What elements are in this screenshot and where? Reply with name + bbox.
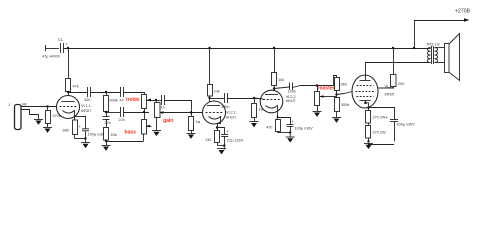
svg-text:6Ф3П: 6Ф3П — [385, 93, 395, 97]
capacitor 47 treble — [120, 87, 124, 103]
ground cathode VL2.1 — [217, 149, 226, 155]
svg-text:10k: 10k — [278, 78, 284, 82]
wire cathode bottom VL2.2 — [278, 132, 291, 134]
ground gain — [152, 131, 161, 137]
svg-text:J: J — [8, 103, 10, 107]
svg-text:680: 680 — [63, 129, 69, 133]
svg-text:270 2W: 270 2W — [373, 116, 387, 120]
ground 470k — [43, 128, 52, 133]
wire input to grid — [21, 106, 57, 108]
svg-text:VL2.1: VL2.1 — [226, 111, 236, 115]
tube VL2.2 6N1P — [260, 90, 295, 113]
svg-text:300k: 300k — [341, 103, 349, 107]
wire wiper to node B — [153, 100, 162, 102]
svg-text:C1: C1 — [58, 38, 63, 42]
svg-text:200: 200 — [398, 82, 404, 86]
svg-text:100n: 100n — [221, 105, 229, 109]
transformer TR3 1:8 — [426, 43, 440, 65]
svg-text:130: 130 — [205, 138, 211, 142]
resistor 470 cathode VL2.2 — [266, 120, 281, 133]
wire cathode VL2.1 — [218, 119, 221, 131]
input jack J — [8, 103, 21, 130]
node +270B riser — [414, 20, 416, 48]
wire anode to cap — [210, 98, 225, 100]
capacitor 22n mid — [119, 107, 125, 122]
svg-text:treble: treble — [126, 97, 140, 103]
wire — [45, 48, 59, 50]
node anode VL2.2 — [273, 87, 275, 89]
svg-text:47µ x400V: 47µ x400V — [42, 55, 61, 59]
svg-text:+270B: +270B — [455, 9, 471, 15]
svg-text:40k: 40k — [111, 133, 117, 137]
node anode VL1.1 — [67, 91, 69, 93]
svg-text:42n: 42n — [84, 98, 90, 102]
capacitor 22n bass — [103, 117, 111, 128]
resistor 500k slope — [104, 92, 118, 117]
ground 1M VL2.2 — [250, 122, 259, 128]
capacitor 100u cathode — [79, 116, 107, 139]
wire mid row — [106, 112, 121, 114]
wire anode VL2.2 to master — [274, 87, 289, 89]
wire treble cap to pot — [124, 93, 145, 95]
resistor 10k plate VL2.2 — [272, 47, 285, 94]
svg-text:VR: VR — [22, 103, 28, 107]
wire mid to pot leg — [124, 112, 150, 114]
svg-text:22n: 22n — [119, 118, 125, 122]
node NF — [105, 140, 107, 142]
wire grid VL2.2 — [254, 98, 263, 99]
wire cathode VL1.2 — [367, 106, 369, 108]
capacitor 42n — [84, 87, 91, 102]
svg-text:bass: bass — [125, 130, 137, 136]
ground 1M — [187, 134, 196, 139]
svg-text:470: 470 — [266, 126, 272, 130]
svg-text:22µ x16V: 22µ x16V — [227, 138, 244, 142]
svg-text:360: 360 — [341, 83, 347, 87]
node C mid — [105, 111, 107, 113]
svg-text:master: master — [318, 86, 334, 92]
svg-text:47k: 47k — [73, 85, 79, 89]
wire divider to grid VL1.2 — [337, 92, 353, 95]
svg-text:1м: 1м — [196, 120, 201, 124]
node grid VL2.2 — [253, 97, 255, 99]
svg-text:6Ф3П: 6Ф3П — [81, 109, 91, 113]
resistor 680 — [63, 116, 78, 139]
wire to node A — [91, 92, 121, 94]
svg-text:200µ x30V: 200µ x30V — [397, 123, 416, 127]
tube VL1.1 6F3P triode — [57, 96, 92, 119]
resistor 470k — [46, 107, 61, 128]
resistor 270 2W b — [366, 126, 387, 142]
resistor 1M grid VL2.2 — [252, 98, 264, 122]
svg-text:270 2W: 270 2W — [373, 131, 387, 135]
resistor 47k plate — [66, 48, 79, 102]
potentiometer bass — [142, 120, 152, 142]
svg-text:1n: 1n — [161, 106, 165, 110]
wire anode to coupling — [68, 92, 88, 94]
svg-text:500k: 500k — [110, 99, 118, 103]
node C1 out — [67, 47, 69, 49]
capacitor 100u cathode VL2.2 — [278, 118, 314, 133]
wire bass to NF node — [106, 141, 144, 143]
svg-text:10k: 10k — [214, 90, 220, 94]
svg-text:100n: 100n — [288, 90, 296, 94]
wire wiper gain to grid — [165, 112, 203, 114]
potentiometer treble — [142, 95, 154, 120]
ground cathode VL1.2 — [364, 144, 373, 150]
wire cathode bottom — [218, 145, 225, 147]
svg-text:6Н1П: 6Н1П — [226, 115, 236, 119]
wire cathode top — [74, 116, 86, 118]
wire wiper master to divider — [325, 96, 337, 98]
speaker — [445, 34, 460, 81]
node +270B arrow — [464, 18, 470, 22]
svg-text:22n: 22n — [105, 121, 111, 125]
resistor 300k — [335, 98, 350, 118]
wire jack sleeve to ground — [22, 110, 39, 120]
svg-text:47: 47 — [120, 99, 124, 103]
ground NF — [102, 146, 111, 151]
node B+ input terminal — [45, 45, 47, 51]
wire B+ rail — [64, 48, 431, 50]
resistor 40k NF — [104, 128, 117, 146]
svg-text:TR3 1:8: TR3 1:8 — [426, 43, 440, 47]
capacitor 100n — [221, 93, 229, 109]
svg-text:100µ x16V: 100µ x16V — [295, 127, 314, 131]
ground master — [313, 112, 322, 117]
svg-text:VL1.1: VL1.1 — [81, 104, 91, 108]
capacitor 1n bright — [161, 95, 165, 110]
node anode VL2.1 — [208, 97, 210, 99]
potentiometer gain — [155, 100, 166, 131]
wire cathode bottom VL1.2 — [368, 144, 394, 146]
wire +270B — [414, 20, 466, 22]
wire cathode bottom — [75, 138, 86, 140]
wire cap to grid VL2.2 — [228, 98, 261, 100]
svg-text:6Н1П: 6Н1П — [286, 99, 296, 103]
capacitor C1 — [42, 38, 69, 59]
resistor 1M grid VL2.1 — [189, 113, 201, 134]
wire anode VL1.2 to transformer — [366, 63, 431, 81]
capacitor 200u cathode VL1.2 — [369, 108, 416, 142]
resistor 360 — [334, 76, 347, 98]
tube VL1.2 6F3P pentode — [352, 75, 395, 110]
ground cathode VL2.2 — [286, 137, 295, 143]
wire to master pot — [293, 86, 334, 88]
resistor 270 2W a — [366, 111, 387, 126]
wire 1n to grid node — [165, 101, 192, 113]
resistor 200 screen — [378, 47, 405, 88]
svg-text:gain: gain — [163, 118, 173, 124]
ground jack — [34, 120, 43, 125]
tube VL2.1 6N1P — [203, 101, 236, 124]
potentiometer master — [315, 92, 326, 112]
node divider — [335, 93, 337, 95]
node A — [105, 91, 107, 93]
capacitor 22u cathode — [218, 128, 244, 146]
resistor 130 cathode — [205, 131, 220, 146]
node grid R — [46, 105, 48, 107]
ground 300k — [332, 118, 341, 123]
wire cathode VL2.2 — [277, 108, 279, 120]
resistor 10k plate VL2.1 — [208, 47, 220, 106]
wire secondary to speaker — [435, 47, 445, 49]
capacitor 100n coupling 2 — [288, 83, 296, 94]
ground cathode VL1.1 — [81, 143, 90, 149]
